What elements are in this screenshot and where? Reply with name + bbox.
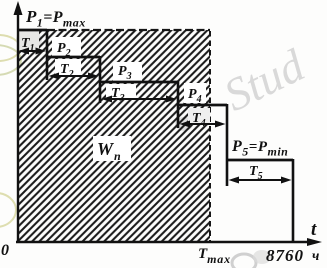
svg-text:8760: 8760 <box>266 246 304 265</box>
white patches under labels <box>17 31 39 50</box>
label origin 0 <box>1 242 9 259</box>
label P1=Pmax <box>25 7 86 30</box>
svg-text:0: 0 <box>1 242 9 259</box>
dashed Tmax vertical boundary <box>209 31 211 242</box>
T2 arrow <box>49 73 99 80</box>
label t axis <box>311 219 317 240</box>
step line P1 <box>18 29 47 32</box>
step drop 3 <box>177 81 180 128</box>
label hours unit <box>312 249 319 264</box>
watermark circles left <box>0 35 21 227</box>
T4 arrow <box>180 121 226 128</box>
svg-text:ч: ч <box>312 249 319 264</box>
watermark arc bottom-right <box>232 254 256 272</box>
t axis (horizontal) <box>16 241 310 243</box>
label T4 <box>192 111 206 129</box>
label P4 <box>188 87 202 105</box>
label P2 <box>57 41 71 59</box>
step line P2 <box>47 56 100 59</box>
T1 arrow <box>19 48 47 55</box>
label P5=Pmin <box>231 138 288 159</box>
label T5 <box>249 164 263 182</box>
label T1 <box>21 36 35 54</box>
step drop 1 <box>46 29 49 80</box>
P axis (vertical) <box>17 12 19 242</box>
label T2 <box>60 62 74 80</box>
watermark Stud top-right <box>216 39 313 121</box>
label T3 <box>111 86 125 104</box>
label Wn (energy area) <box>97 139 122 163</box>
hatched area Wп rectangle (Pmax x Tmax) <box>18 30 210 242</box>
dashed top boundary of energy rectangle <box>47 29 210 31</box>
label P3 <box>118 64 132 82</box>
T5 arrow <box>229 177 292 184</box>
step line P4 <box>178 104 227 107</box>
step line P3 <box>100 81 178 84</box>
svg-text:t: t <box>311 219 317 240</box>
T3 arrow <box>102 96 177 103</box>
step line P5 <box>227 159 293 162</box>
label Tmax <box>198 246 231 266</box>
final drop <box>292 159 295 242</box>
label 8760 <box>266 246 304 265</box>
step drop 4 <box>226 104 229 186</box>
step drop 2 <box>99 56 102 103</box>
